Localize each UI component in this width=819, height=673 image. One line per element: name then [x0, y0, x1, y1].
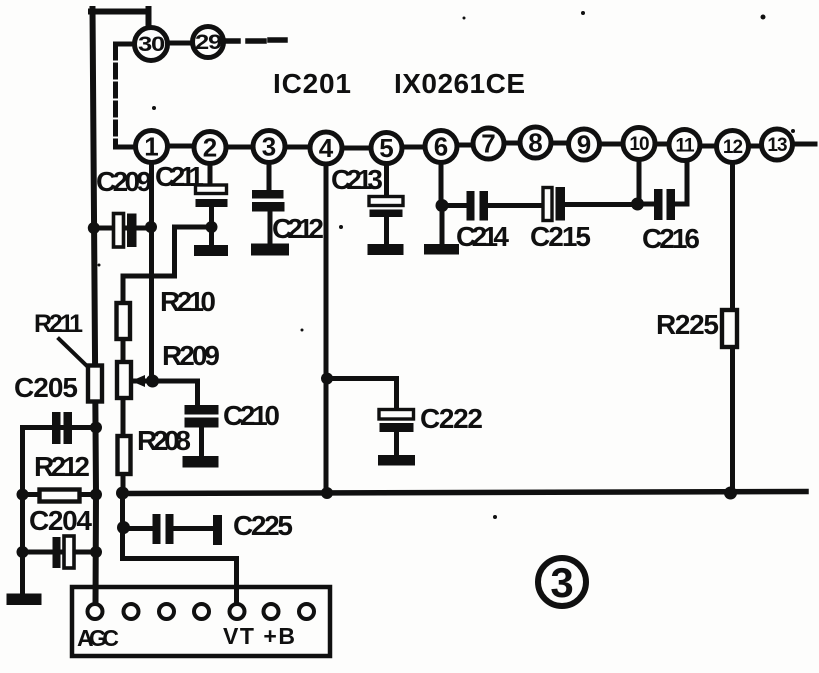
svg-text:11: 11	[675, 136, 695, 157]
svg-text:4: 4	[319, 133, 334, 163]
svg-text:C204: C204	[29, 505, 92, 536]
svg-text:3: 3	[550, 559, 573, 606]
svg-text:R225: R225	[656, 309, 719, 340]
svg-text:AGC: AGC	[77, 625, 119, 651]
svg-text:R209: R209	[162, 340, 220, 371]
svg-text:5: 5	[379, 133, 393, 163]
svg-text:R208: R208	[137, 425, 191, 456]
svg-text:C225: C225	[233, 510, 293, 541]
svg-text:C211: C211	[155, 161, 204, 192]
svg-text:IC201: IC201	[273, 68, 351, 99]
svg-text:3: 3	[262, 132, 276, 162]
svg-text:29: 29	[195, 31, 221, 54]
svg-text:C215: C215	[530, 221, 591, 252]
svg-text:1: 1	[144, 132, 158, 162]
svg-text:R211: R211	[34, 310, 83, 338]
svg-text:2: 2	[203, 133, 217, 163]
svg-text:IX0261CE: IX0261CE	[394, 68, 525, 99]
svg-text:12: 12	[723, 137, 743, 158]
svg-text:C216: C216	[642, 223, 700, 254]
svg-text:VT +B: VT +B	[223, 623, 295, 649]
svg-text:C205: C205	[14, 372, 78, 403]
svg-text:8: 8	[528, 128, 542, 158]
svg-text:C213: C213	[331, 164, 383, 195]
svg-text:C214: C214	[456, 221, 509, 252]
svg-text:30: 30	[138, 33, 164, 56]
svg-text:9: 9	[577, 130, 591, 160]
svg-text:C222: C222	[420, 403, 483, 434]
svg-text:7: 7	[481, 129, 495, 159]
svg-text:6: 6	[434, 132, 448, 162]
svg-text:R210: R210	[160, 286, 216, 317]
svg-text:C210: C210	[223, 400, 280, 431]
svg-text:13: 13	[767, 135, 787, 156]
svg-text:10: 10	[629, 134, 649, 155]
svg-text:R212: R212	[34, 451, 90, 482]
svg-text:C209: C209	[96, 166, 152, 197]
svg-text:C212: C212	[272, 213, 324, 244]
